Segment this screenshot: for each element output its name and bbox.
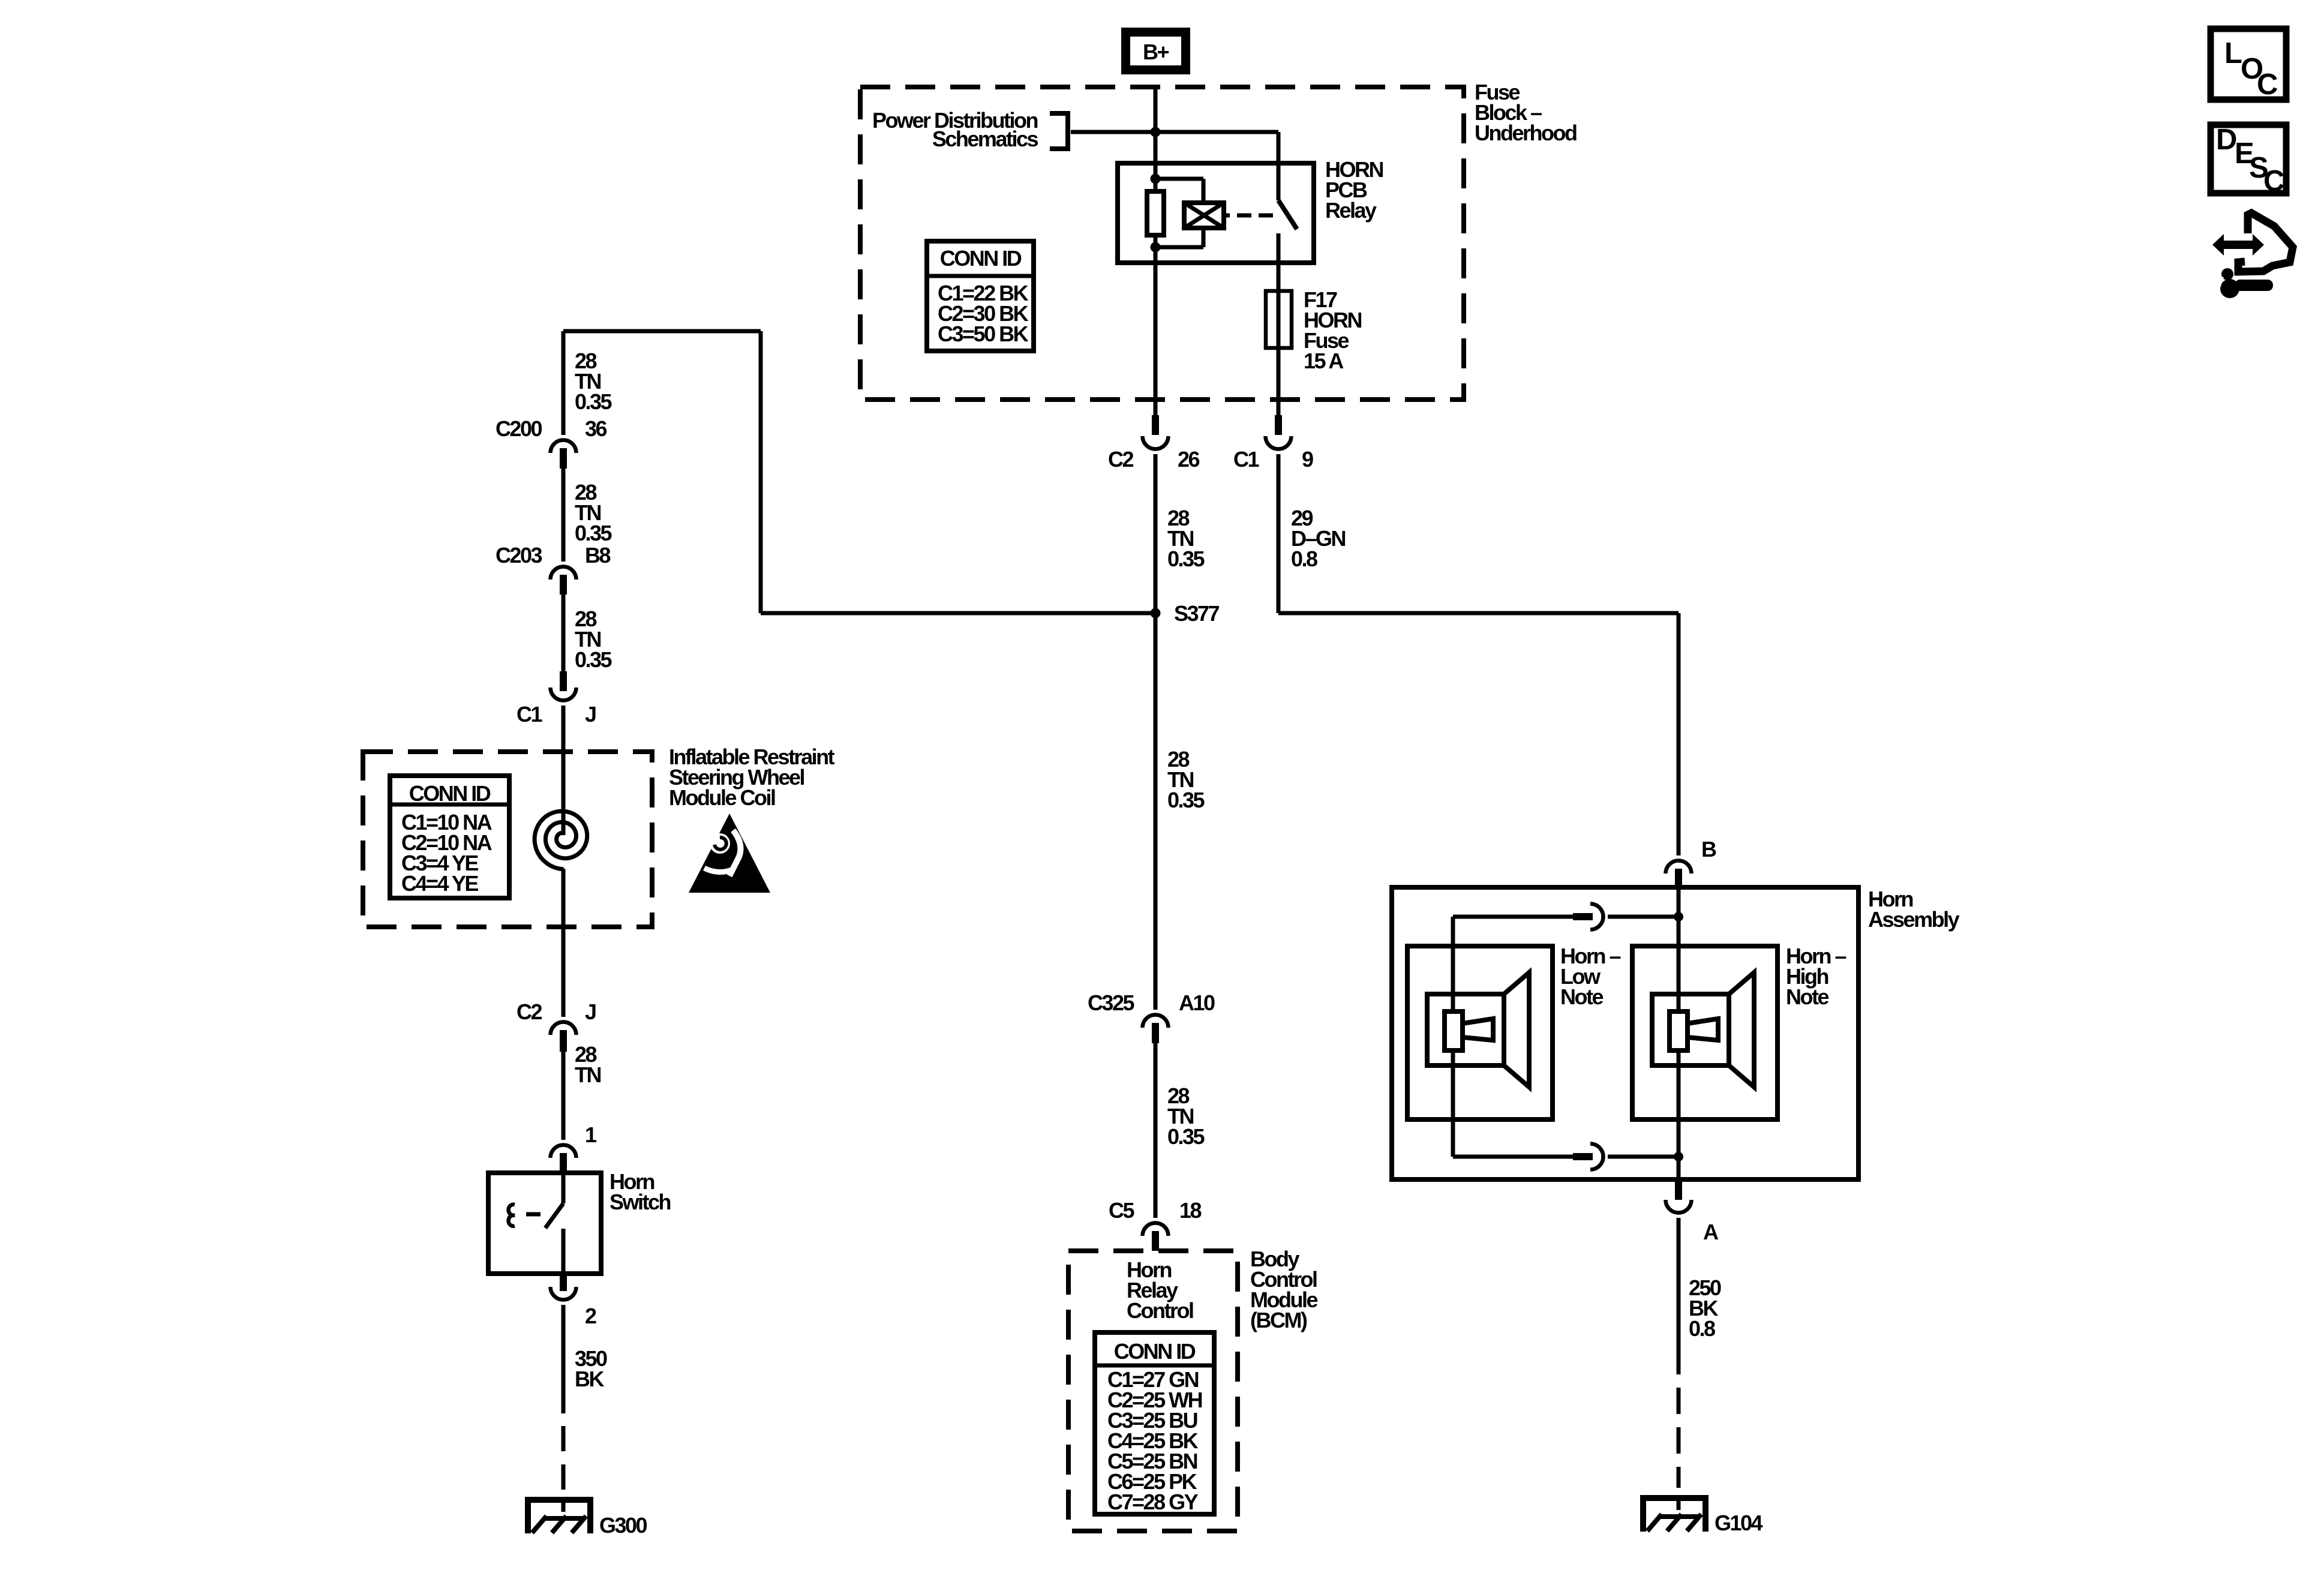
svg-text:Relay: Relay <box>1325 198 1377 223</box>
svg-text:B: B <box>1701 837 1716 861</box>
svg-text:Module Coil: Module Coil <box>669 785 775 810</box>
svg-text:C3=50 BK: C3=50 BK <box>938 322 1029 346</box>
svg-text:G300: G300 <box>599 1513 647 1538</box>
svg-text:0.35: 0.35 <box>1167 547 1205 571</box>
svg-text:C4=4 YE: C4=4 YE <box>401 871 478 896</box>
svg-text:Underhood: Underhood <box>1475 121 1577 145</box>
svg-text:9: 9 <box>1302 447 1313 472</box>
svg-text:C1: C1 <box>517 702 542 727</box>
svg-text:D: D <box>2216 124 2236 156</box>
svg-text:15 A: 15 A <box>1304 349 1344 373</box>
svg-text:A10: A10 <box>1179 990 1215 1015</box>
svg-text:Control: Control <box>1127 1298 1193 1323</box>
svg-text:0.35: 0.35 <box>1167 1124 1205 1149</box>
svg-text:Switch: Switch <box>609 1190 671 1214</box>
svg-text:CONN ID: CONN ID <box>1114 1339 1196 1364</box>
svg-text:C203: C203 <box>496 543 542 568</box>
svg-text:Schematics: Schematics <box>932 127 1038 151</box>
svg-text:0.35: 0.35 <box>575 389 612 414</box>
svg-text:S377: S377 <box>1174 601 1220 626</box>
svg-text:C2: C2 <box>1108 447 1133 472</box>
svg-text:2: 2 <box>585 1304 596 1328</box>
svg-text:C1: C1 <box>1233 447 1259 472</box>
svg-text:C: C <box>2257 68 2278 101</box>
svg-text:CONN ID: CONN ID <box>940 246 1022 271</box>
svg-text:Note: Note <box>1560 984 1603 1009</box>
svg-text:1: 1 <box>585 1122 597 1147</box>
svg-text:0.35: 0.35 <box>575 521 612 545</box>
svg-text:C: C <box>2263 165 2284 197</box>
svg-text:0.35: 0.35 <box>1167 788 1205 812</box>
svg-text:BK: BK <box>575 1367 604 1391</box>
svg-text:J: J <box>585 999 596 1024</box>
svg-text:0.8: 0.8 <box>1689 1316 1715 1341</box>
svg-text:C2: C2 <box>517 999 542 1024</box>
svg-text:CONN ID: CONN ID <box>409 781 491 806</box>
svg-text:C200: C200 <box>496 416 542 441</box>
svg-text:Note: Note <box>1786 984 1828 1009</box>
svg-text:L: L <box>2224 37 2242 70</box>
svg-text:B+: B+ <box>1143 40 1169 64</box>
svg-text:0.35: 0.35 <box>575 647 612 672</box>
svg-text:G104: G104 <box>1715 1511 1763 1535</box>
svg-text:18: 18 <box>1179 1198 1202 1223</box>
svg-text:26: 26 <box>1178 447 1200 472</box>
svg-text:C325: C325 <box>1088 990 1135 1015</box>
svg-text:B8: B8 <box>585 543 610 568</box>
svg-text:36: 36 <box>585 416 607 441</box>
svg-text:Assembly: Assembly <box>1868 907 1960 932</box>
svg-text:0.8: 0.8 <box>1291 547 1317 571</box>
svg-text:TN: TN <box>575 1062 600 1087</box>
svg-text:J: J <box>585 702 596 727</box>
svg-text:C5: C5 <box>1109 1198 1134 1223</box>
svg-text:C7=28 GY: C7=28 GY <box>1107 1490 1199 1514</box>
svg-text:(BCM): (BCM) <box>1250 1308 1307 1332</box>
svg-text:A: A <box>1703 1220 1719 1244</box>
